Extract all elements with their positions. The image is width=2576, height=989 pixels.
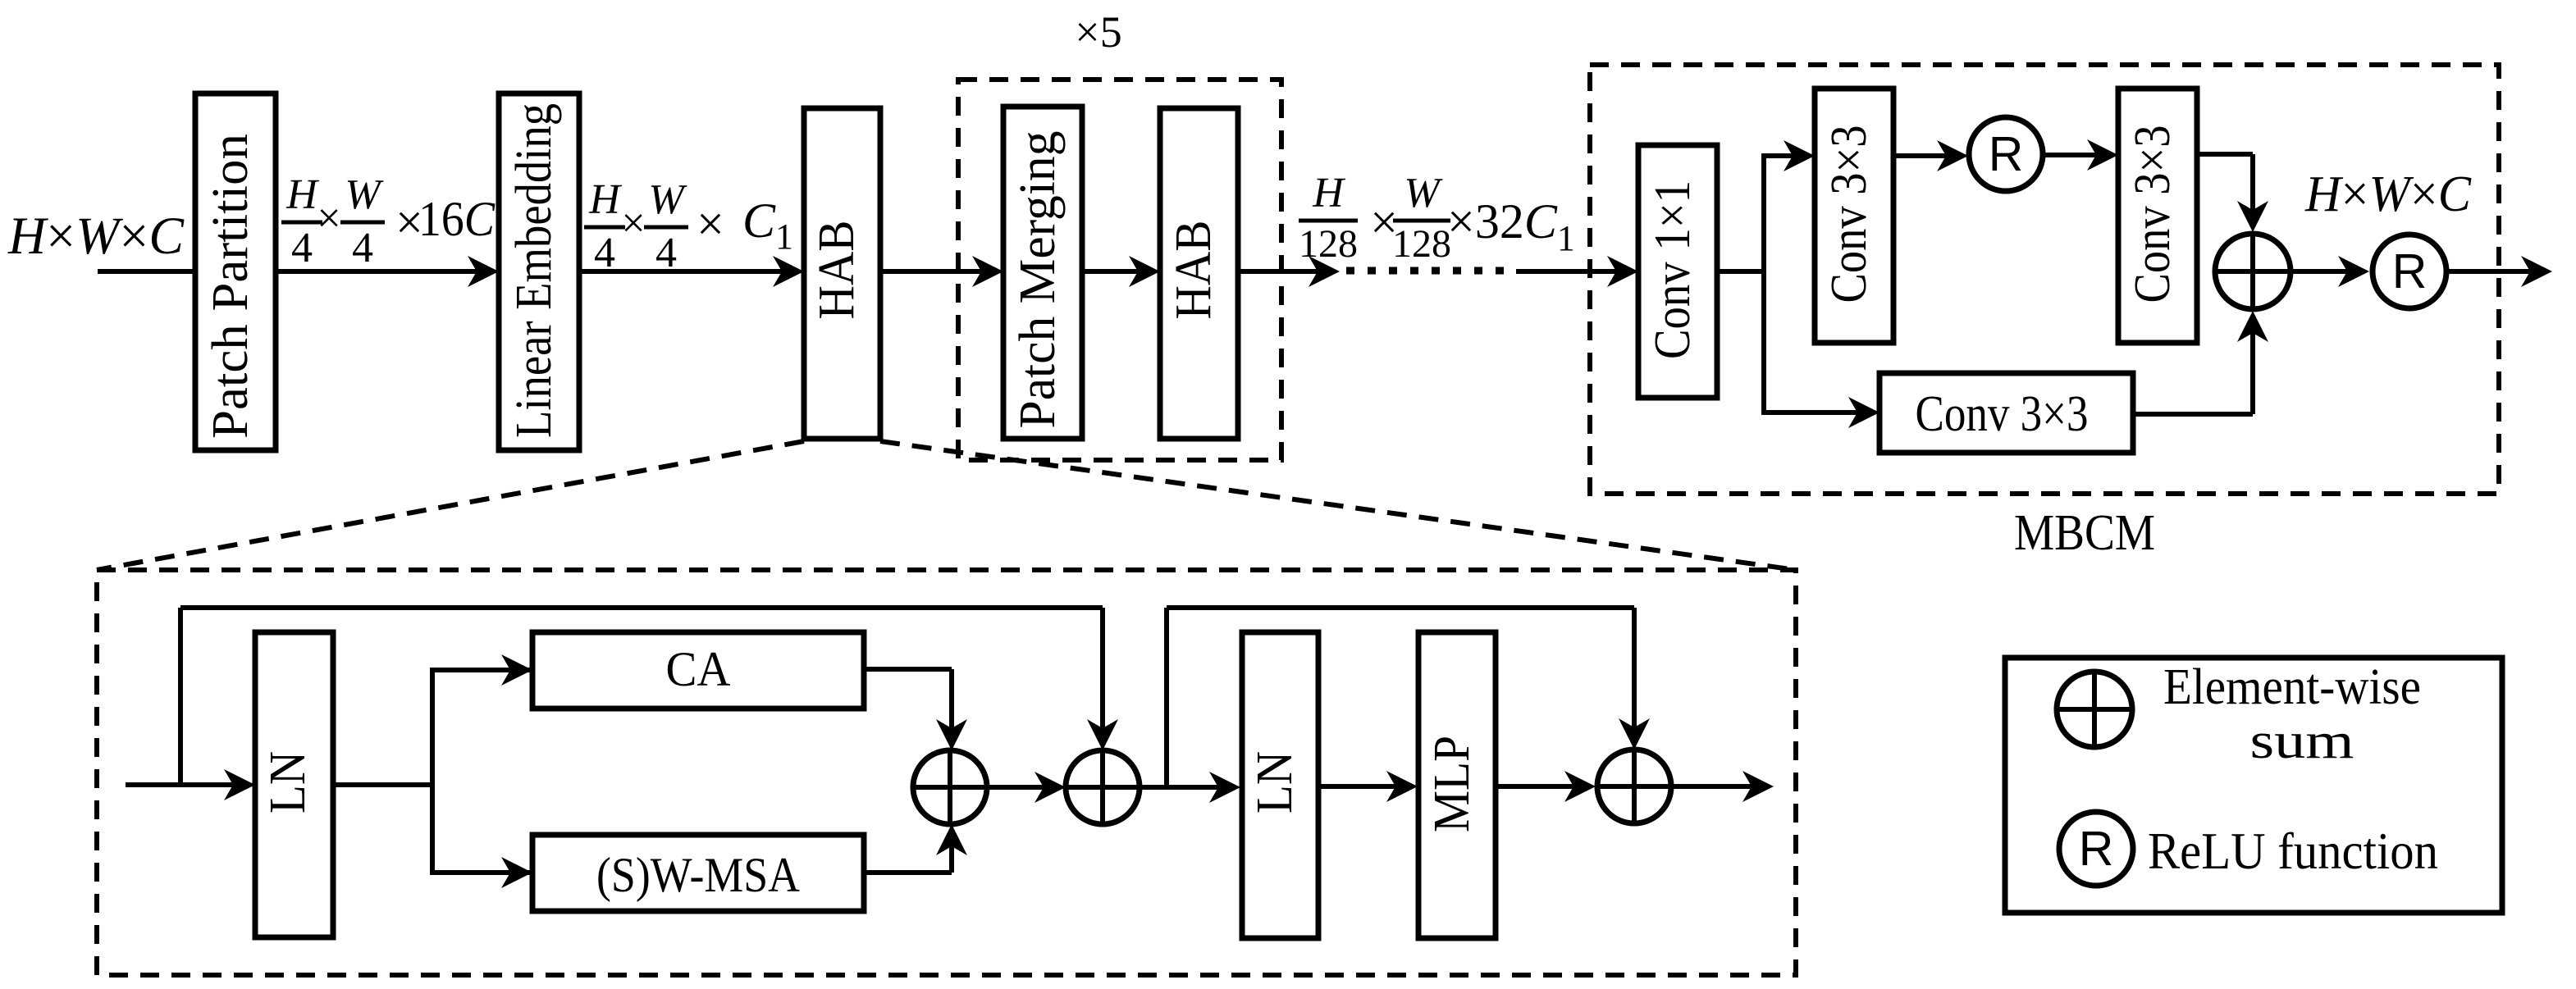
box Conv 3×3 second	[2118, 89, 2197, 343]
box Conv 3×3 bottom	[1879, 373, 2133, 453]
svg-text:HAB: HAB	[809, 221, 865, 320]
box LN first	[255, 632, 333, 937]
box Patch Merging	[1003, 107, 1082, 439]
wire branch to bottom Conv 3×3	[1764, 410, 1873, 415]
box Linear Embedding	[499, 93, 579, 450]
svg-text:W: W	[345, 171, 384, 218]
svg-text:sum: sum	[2250, 713, 2354, 769]
sum element-wise two	[1066, 750, 1140, 824]
dashed box ×5 stage group	[958, 80, 1281, 460]
svg-text:4: 4	[352, 225, 373, 271]
wire skip connection two	[1164, 608, 1169, 787]
wire branch to CA	[432, 668, 670, 672]
dashed box MBCM module	[1590, 65, 2499, 494]
wire LN to MLP	[1318, 784, 1411, 789]
svg-text:W: W	[648, 176, 687, 223]
wire sum two to LN	[1140, 785, 1234, 790]
svg-text:LN: LN	[260, 751, 316, 814]
svg-text:LN: LN	[1247, 751, 1303, 814]
svg-text:ReLU function: ReLU function	[2148, 822, 2438, 880]
wire LN to branch	[333, 782, 432, 787]
box HAB second	[1160, 108, 1238, 439]
wire HAB out of stage group	[1238, 269, 1333, 274]
box MLP	[1418, 632, 1496, 938]
svg-text:128: 128	[1299, 222, 1358, 266]
svg-text:Linear Embedding: Linear Embedding	[506, 103, 562, 438]
box CA	[532, 632, 864, 709]
wire bottom Conv 3×3 to sum	[2133, 412, 2253, 417]
svg-text:(S)W-MSA: (S)W-MSA	[596, 848, 800, 902]
svg-text:4: 4	[291, 225, 313, 271]
legend relu symbol	[2059, 812, 2133, 886]
wire ReLU to second Conv 3×3	[2043, 153, 2112, 157]
svg-text:R: R	[2079, 822, 2114, 876]
svg-text:Patch Partition: Patch Partition	[203, 134, 258, 439]
wire sum to ReLU R2	[2291, 269, 2363, 274]
legend sum symbol	[2057, 672, 2132, 747]
relu R2 circle	[2373, 235, 2446, 308]
wire second Conv 3×3 to sum	[2197, 152, 2253, 157]
svg-text:H: H	[285, 171, 319, 218]
svg-text:HAB: HAB	[1166, 221, 1222, 320]
box Conv 3×3 first	[1815, 89, 1893, 343]
svg-text:×: ×	[621, 200, 645, 247]
sum element-wise one	[913, 750, 987, 824]
svg-text:Conv 3×3: Conv 3×3	[1916, 386, 2089, 442]
box SW-MSA	[532, 835, 864, 911]
box Patch Partition	[195, 93, 276, 450]
svg-text:Patch Merging: Patch Merging	[1010, 131, 1066, 429]
svg-text:×: ×	[697, 197, 724, 251]
wire branch vertical HAB	[430, 668, 435, 875]
wire Conv 1×1 to branch junction	[1717, 269, 1764, 274]
sum element-wise three	[1597, 750, 1671, 823]
box HAB first	[804, 108, 880, 439]
wire Patch Partition to Linear Embedding	[276, 269, 492, 274]
dashed zoom line left	[97, 441, 804, 570]
svg-text:MLP: MLP	[1424, 736, 1480, 832]
legend box	[2005, 658, 2502, 913]
wire Patch Merging to HAB	[1082, 269, 1153, 274]
svg-text:H×W×C: H×W×C	[7, 207, 185, 266]
svg-text:Element-wise: Element-wise	[2163, 659, 2421, 715]
wire dotted continuation	[1346, 267, 1508, 275]
svg-text:R: R	[1989, 127, 2024, 181]
wire branch to SW-MSA	[432, 870, 873, 875]
label H/4×W/4×C1	[584, 176, 793, 276]
wire Linear Embedding to HAB	[579, 269, 797, 274]
svg-text:16C: 16C	[418, 192, 496, 246]
wire into MBCM Conv 1×1	[1516, 269, 1632, 274]
sum element-wise MBCM	[2215, 234, 2291, 309]
wire CA to sum	[864, 667, 952, 672]
box Conv 1×1	[1638, 145, 1717, 398]
box LN second	[1242, 632, 1318, 938]
wire HAB output	[1671, 784, 1767, 789]
svg-text:×: ×	[317, 195, 340, 242]
wire MBCM output	[2444, 269, 2546, 274]
wire sum one to sum two	[987, 785, 1059, 790]
wire HAB to Patch Merging	[880, 269, 997, 274]
wire branch to first Conv 3×3	[1764, 153, 1808, 158]
wire SW-MSA to sum	[864, 870, 952, 875]
svg-text:H×W×C: H×W×C	[2304, 166, 2472, 222]
svg-text:H: H	[588, 176, 622, 223]
wire branch vertical	[1761, 153, 1766, 415]
wire HAB input	[126, 782, 249, 787]
relu R1 circle	[1969, 117, 2043, 191]
label H/128×W/128×32C1	[1299, 170, 1575, 266]
svg-text:Conv 3×3: Conv 3×3	[1821, 125, 1877, 303]
wire MLP to sum three	[1496, 784, 1589, 789]
svg-text:R: R	[2392, 244, 2428, 299]
svg-text:Conv 3×3: Conv 3×3	[2125, 125, 2181, 303]
svg-text:Conv 1×1: Conv 1×1	[1645, 180, 1701, 359]
wire skip connection one	[178, 608, 183, 785]
svg-text:MBCM: MBCM	[2014, 505, 2155, 561]
label H/4×W/4×16C	[281, 171, 496, 271]
wire input to Patch Partition	[98, 269, 195, 274]
dashed zoom line right	[880, 441, 1796, 570]
wire Conv 3×3 to ReLU	[1893, 153, 1962, 158]
svg-text:×5: ×5	[1075, 7, 1121, 57]
dashed box HAB detail	[97, 570, 1796, 975]
svg-text:CA: CA	[666, 642, 731, 696]
svg-text:128: 128	[1392, 222, 1451, 266]
svg-text:H: H	[1312, 170, 1345, 216]
svg-text:W: W	[1404, 170, 1443, 216]
